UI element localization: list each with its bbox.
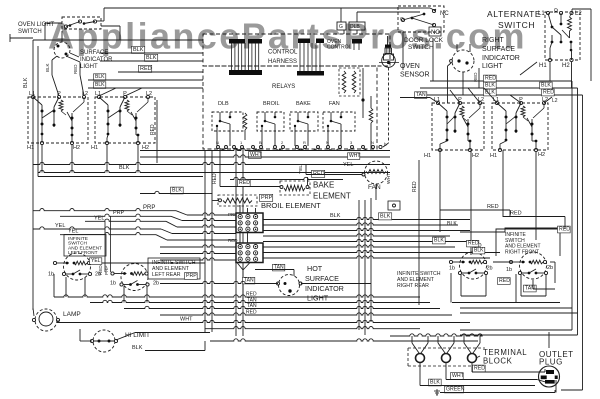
svg-text:BLK: BLK — [430, 380, 440, 386]
svg-text:BLK: BLK — [133, 47, 144, 53]
svg-text:RED: RED — [510, 211, 522, 217]
svg-text:TAN: TAN — [525, 286, 535, 292]
svg-text:WHT: WHT — [349, 153, 360, 159]
svg-text:H2: H2 — [73, 145, 80, 151]
svg-text:DOOR LOCK: DOOR LOCK — [404, 37, 444, 44]
svg-text:BLK: BLK — [172, 188, 182, 194]
svg-text:WHT: WHT — [452, 373, 465, 379]
svg-text:YEL: YEL — [343, 162, 353, 168]
svg-text:L2: L2 — [146, 91, 152, 97]
svg-text:INDICATOR: INDICATOR — [80, 57, 113, 63]
svg-text:1b: 1b — [506, 267, 512, 273]
svg-text:FAN: FAN — [368, 184, 381, 191]
svg-text:H1: H1 — [490, 153, 497, 159]
svg-text:BLK: BLK — [447, 221, 457, 227]
svg-text:SURFACE: SURFACE — [305, 274, 339, 283]
svg-text:SENSOR: SENSOR — [400, 72, 430, 79]
svg-text:L2: L2 — [82, 91, 88, 97]
svg-text:RED: RED — [73, 64, 78, 74]
svg-text:GREEN: GREEN — [446, 387, 465, 393]
svg-text:N: N — [326, 140, 329, 145]
svg-text:BLK: BLK — [95, 82, 105, 88]
svg-text:RED: RED — [212, 173, 218, 184]
svg-text:RED: RED — [412, 181, 418, 192]
svg-text:RED: RED — [499, 278, 510, 284]
svg-text:PRP: PRP — [261, 195, 273, 201]
svg-text:NO: NO — [431, 30, 440, 36]
svg-text:BLK: BLK — [380, 214, 391, 220]
svg-text:PRP: PRP — [186, 273, 197, 279]
svg-text:BLK: BLK — [146, 55, 157, 61]
svg-text:H1: H1 — [539, 63, 547, 69]
svg-text:LIGHT: LIGHT — [80, 64, 98, 70]
svg-text:BLK: BLK — [485, 83, 495, 89]
svg-text:H1: H1 — [91, 145, 98, 151]
svg-text:BROIL ELEMENT: BROIL ELEMENT — [261, 201, 321, 210]
svg-text:YEL: YEL — [91, 258, 101, 264]
svg-text:1b: 1b — [48, 272, 54, 278]
svg-text:RED: RED — [313, 171, 325, 177]
svg-text:WHT: WHT — [386, 173, 392, 184]
svg-text:LIGHT: LIGHT — [307, 294, 329, 303]
svg-text:LIGHT: LIGHT — [482, 63, 503, 70]
svg-text:BAKE: BAKE — [313, 181, 334, 190]
svg-text:HARNESS: HARNESS — [268, 59, 297, 65]
svg-text:P: P — [57, 91, 61, 97]
svg-text:H2: H2 — [562, 63, 570, 69]
svg-text:L1: L1 — [95, 91, 101, 97]
svg-text:R: R — [303, 140, 306, 145]
svg-text:G: G — [339, 24, 343, 30]
svg-text:YEL: YEL — [68, 229, 78, 235]
svg-text:BLK: BLK — [541, 83, 551, 89]
svg-text:P: P — [123, 91, 127, 97]
svg-text:HI LIMIT: HI LIMIT — [125, 332, 150, 339]
svg-text:L2: L2 — [575, 11, 582, 17]
svg-text:BLK: BLK — [45, 63, 50, 72]
svg-text:LEFT REAR: LEFT REAR — [152, 272, 181, 278]
svg-text:BLK: BLK — [23, 77, 29, 88]
svg-text:BLOCK: BLOCK — [483, 357, 513, 366]
svg-text:BAKE: BAKE — [296, 101, 311, 107]
svg-text:BLK: BLK — [474, 248, 484, 254]
svg-text:YEL: YEL — [94, 216, 104, 222]
svg-text:WHT: WHT — [180, 317, 193, 323]
svg-text:ALTERNATE: ALTERNATE — [487, 9, 541, 19]
svg-text:YEL: YEL — [55, 223, 65, 229]
svg-text:BLK: BLK — [132, 345, 143, 351]
svg-text:RED: RED — [473, 72, 478, 82]
svg-text:YEL: YEL — [298, 165, 304, 174]
svg-text:L1: L1 — [29, 91, 35, 97]
svg-text:1b: 1b — [110, 281, 116, 287]
svg-text:RED: RED — [543, 90, 554, 96]
svg-text:H1: H1 — [424, 153, 431, 159]
svg-text:B: B — [259, 140, 262, 145]
svg-text:2b: 2b — [153, 281, 159, 287]
svg-text:H2: H2 — [538, 152, 545, 158]
svg-text:DLB: DLB — [218, 101, 229, 107]
svg-text:RIGHT: RIGHT — [482, 37, 505, 44]
svg-text:1b: 1b — [449, 266, 455, 272]
svg-text:N: N — [371, 140, 374, 145]
svg-text:2b: 2b — [487, 266, 493, 272]
svg-text:RED: RED — [485, 76, 496, 82]
svg-text:PLUG: PLUG — [539, 358, 563, 367]
svg-text:LAMP: LAMP — [63, 311, 81, 318]
svg-text:BLK: BLK — [434, 238, 444, 244]
svg-text:RED: RED — [487, 204, 499, 210]
svg-text:RED: RED — [140, 66, 152, 72]
svg-text:RED: RED — [468, 241, 479, 247]
svg-text:RED: RED — [98, 265, 103, 275]
svg-text:L1: L1 — [538, 11, 545, 17]
svg-text:LEFT FRONT: LEFT FRONT — [68, 250, 98, 256]
svg-text:INDICATOR: INDICATOR — [305, 284, 344, 293]
svg-text:RED: RED — [474, 366, 485, 372]
svg-text:SWITCH: SWITCH — [498, 20, 535, 30]
svg-text:BLK: BLK — [330, 213, 341, 219]
svg-text:N: N — [216, 140, 219, 145]
svg-text:SWITCH: SWITCH — [18, 29, 42, 35]
svg-text:RIGHT FRONT: RIGHT FRONT — [505, 249, 539, 255]
svg-text:H2: H2 — [472, 153, 479, 159]
svg-text:INDICATOR: INDICATOR — [482, 55, 520, 62]
svg-text:L2: L2 — [552, 98, 558, 104]
svg-text:FAN: FAN — [329, 101, 340, 107]
svg-text:BLK: BLK — [95, 74, 105, 80]
svg-text:HOT: HOT — [307, 264, 323, 273]
svg-text:CONTROL: CONTROL — [268, 50, 298, 56]
svg-text:CONTROL: CONTROL — [327, 45, 352, 51]
svg-text:C: C — [400, 17, 404, 23]
svg-text:SWITCH: SWITCH — [408, 44, 434, 51]
svg-text:RIGHT REAR: RIGHT REAR — [397, 283, 429, 289]
svg-text:BLK: BLK — [119, 165, 130, 171]
svg-text:2b: 2b — [547, 265, 553, 271]
svg-text:DLB: DLB — [350, 24, 360, 30]
svg-text:NC: NC — [440, 11, 449, 17]
svg-text:SURFACE: SURFACE — [482, 46, 515, 53]
svg-text:PRP: PRP — [113, 210, 125, 216]
svg-text:RED: RED — [239, 180, 250, 186]
svg-text:PRP: PRP — [143, 205, 155, 211]
svg-text:ELEMENT: ELEMENT — [313, 192, 351, 201]
svg-text:P: P — [554, 9, 558, 15]
svg-text:BROIL: BROIL — [263, 101, 280, 107]
svg-text:RELAYS: RELAYS — [272, 84, 295, 90]
